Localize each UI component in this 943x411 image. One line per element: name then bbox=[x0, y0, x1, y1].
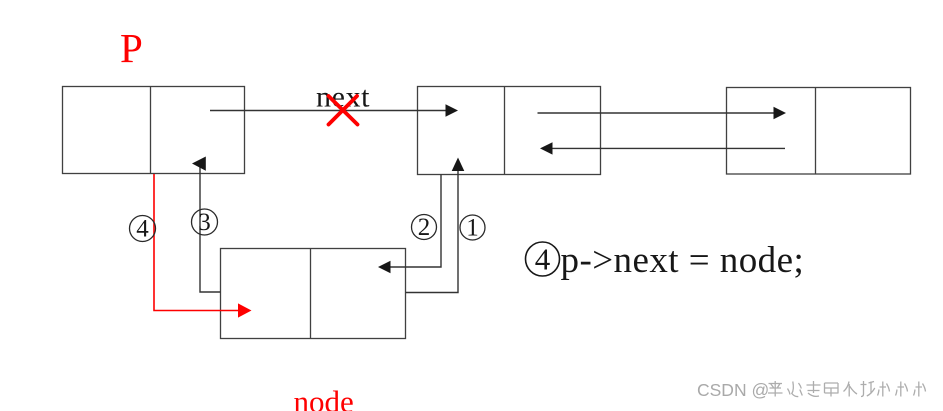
circled 2 bbox=[412, 214, 437, 241]
wire 2 middle-to-node bbox=[378, 175, 441, 274]
wire middle-to-right bbox=[538, 107, 787, 119]
box right bbox=[727, 88, 911, 175]
red wire 4 p-to-node bbox=[154, 174, 252, 318]
svg-text:p->next = node;: p->next = node; bbox=[561, 240, 805, 281]
svg-text:CSDN @: CSDN @ bbox=[697, 380, 769, 400]
wire 1 node-to-middle bbox=[406, 158, 465, 293]
svg-text:4: 4 bbox=[535, 241, 551, 276]
box node bbox=[221, 249, 406, 339]
red cross on next bbox=[329, 96, 358, 125]
svg-text:1: 1 bbox=[466, 215, 479, 242]
svg-text:node: node bbox=[294, 384, 354, 411]
circled 3 bbox=[192, 209, 218, 236]
svg-text:P: P bbox=[120, 25, 143, 71]
svg-text:2: 2 bbox=[418, 214, 431, 241]
circled 1 bbox=[460, 215, 485, 242]
svg-text:4: 4 bbox=[136, 216, 149, 243]
wire 3 node-to-p bbox=[192, 157, 221, 293]
box middle bbox=[418, 87, 601, 175]
statement circled 4 bbox=[526, 241, 560, 276]
wire p-to-middle bbox=[210, 104, 458, 116]
box P bbox=[63, 87, 245, 174]
circled 4 bbox=[130, 216, 156, 243]
wire right-to-middle bbox=[540, 142, 785, 154]
watermark bbox=[697, 380, 926, 400]
svg-text:3: 3 bbox=[198, 209, 211, 236]
